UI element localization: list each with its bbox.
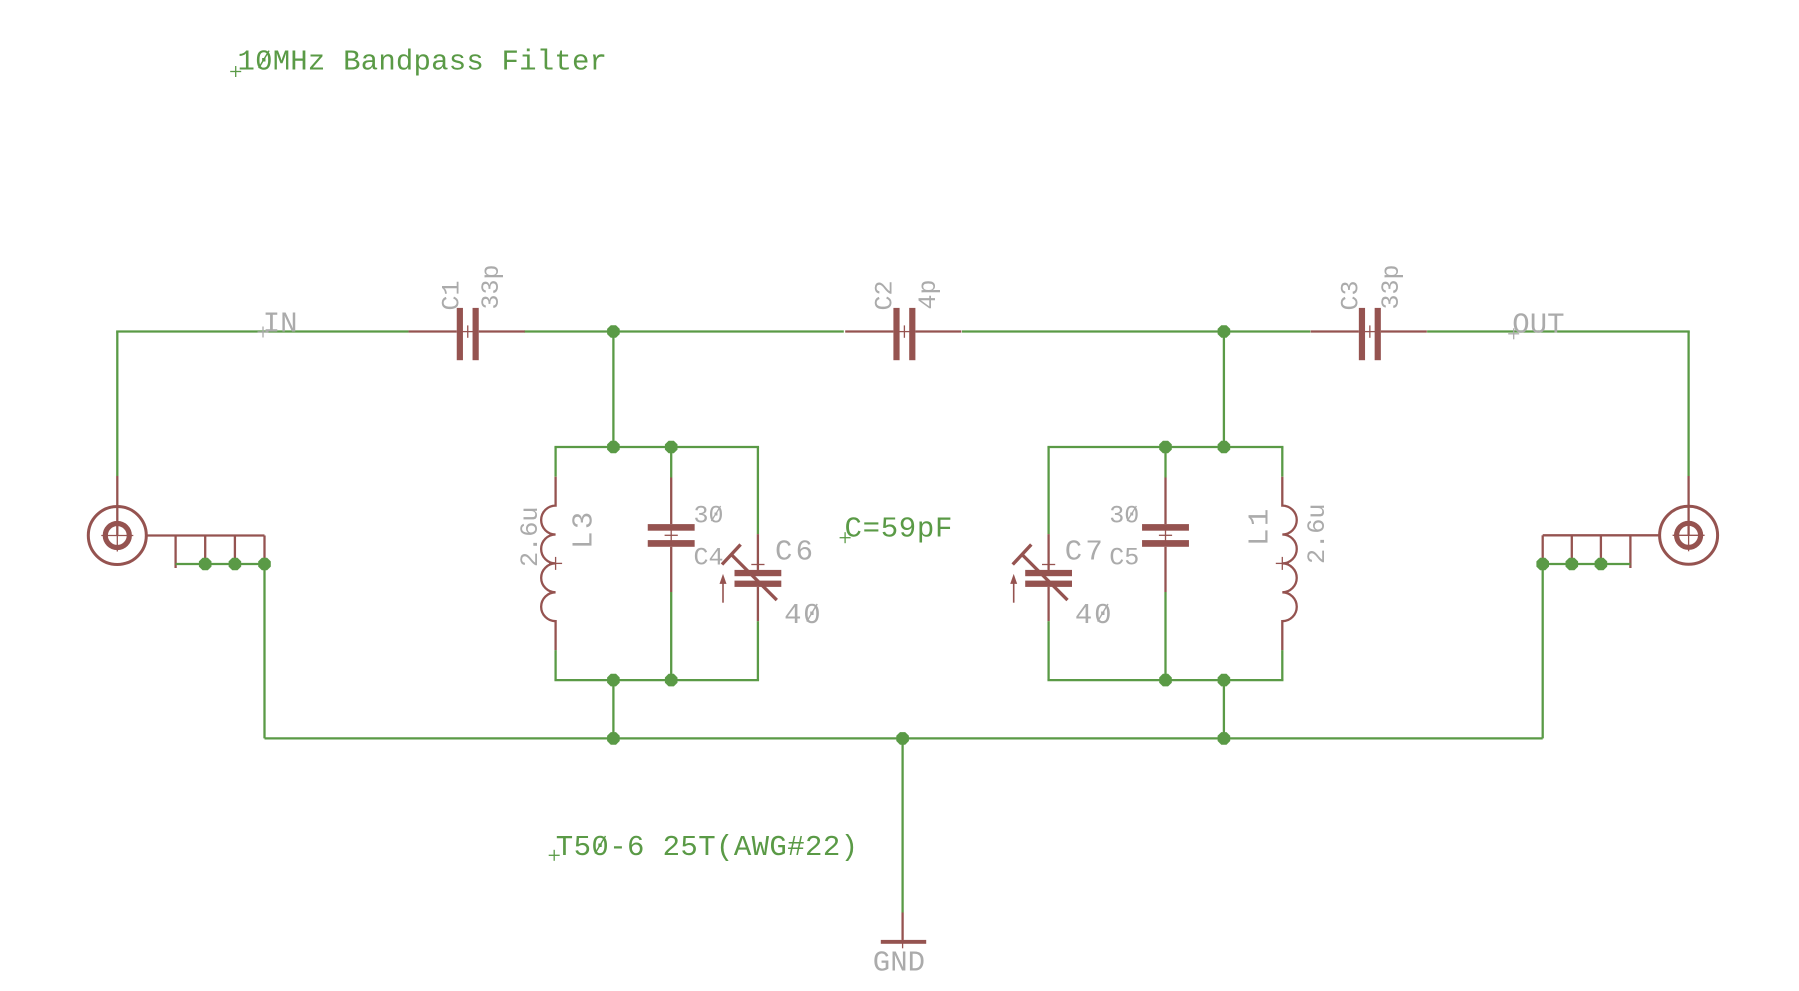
svg-text:IN: IN [263, 307, 298, 340]
inductor L1 top green stub [1281, 447, 1283, 477]
trimmer capacitor C7 bottom plate [1025, 581, 1072, 587]
svg-text:L1: L1 [1244, 506, 1277, 546]
wire: drop from main wire to left tank top rail [612, 332, 614, 448]
wire: IN net, left vertical from connector to top rail [116, 332, 118, 477]
slashed zero in C7 value [1098, 604, 1108, 622]
svg-text:T50-6 25T(AWG#22): T50-6 25T(AWG#22) [556, 831, 859, 864]
connector OUT crosshair [1673, 519, 1705, 551]
node OUT label origin cross [1508, 328, 1519, 339]
trimmer capacitor C7 bottom lead [1047, 587, 1049, 621]
wire: IN net, horizontal from left corner to C1 [116, 330, 408, 332]
capacitor C4 bottom lead [670, 547, 672, 592]
trimmer capacitor C7 bottom green stub [1047, 621, 1049, 680]
junction right tank bottom rail at exit [1218, 674, 1231, 687]
wire: net between C2 and C3 (horizontal) [962, 330, 1310, 332]
capacitor C2 origin cross [898, 325, 910, 337]
capacitor C3 left lead [1311, 330, 1359, 332]
trimmer capacitor C7 adjustment shaft (diagonal) [1022, 555, 1068, 601]
svg-text:4p: 4p [914, 279, 943, 309]
junction right shield tick 3 [1595, 558, 1608, 571]
junction left shield tick 4 [258, 558, 271, 571]
ground symbol origin cross [896, 935, 909, 948]
connector IN shield bracket horizontal [146, 534, 264, 536]
note text origin cross [840, 532, 851, 543]
slashed zero in C6 value [807, 604, 817, 622]
wire: ground stem vertical [901, 738, 903, 912]
junction ground bus at left tank [607, 732, 620, 745]
trimmer capacitor C6 up arrow [720, 574, 727, 603]
connector OUT shield bracket horizontal [1543, 534, 1660, 536]
capacitor C4 top green stub [670, 447, 672, 478]
junction left tank bottom rail at C4 [665, 674, 678, 687]
trimmer capacitor C6 bottom plate [735, 581, 782, 587]
junction left tank bottom rail at exit [607, 674, 620, 687]
svg-text:GND: GND [873, 947, 925, 980]
svg-text:2.6u: 2.6u [516, 507, 545, 567]
wire: right tank top rail [1047, 446, 1283, 448]
svg-text:C6: C6 [775, 536, 816, 569]
wire: left shield ground link [176, 563, 265, 565]
junction right tank top rail at C5 [1159, 441, 1172, 454]
capacitor C5 bottom green stub [1164, 592, 1166, 680]
trimmer capacitor C7 top plate [1025, 570, 1072, 576]
junction ground bus at right tank [1218, 732, 1231, 745]
wire: right tank exit drop to ground bus [1223, 680, 1225, 738]
junction on main wire above right tank [1218, 325, 1231, 338]
capacitor C4 top plate [648, 524, 695, 531]
connector OUT shield tick 1 [1542, 535, 1544, 568]
connector OUT center pin lead [1687, 476, 1689, 535]
junction left shield tick 2 [199, 558, 212, 571]
wire: OUT net horizontal from C3 to right corner [1427, 330, 1690, 332]
connector IN shield tick 1 [174, 536, 176, 569]
capacitor C3 right plate [1375, 308, 1381, 360]
capacitor C2 left lead [845, 330, 893, 332]
capacitor C5 bottom plate [1142, 540, 1189, 547]
wire: left tank top rail [554, 446, 759, 448]
inductor L1 origin cross [1276, 557, 1289, 570]
junction on main wire above left tank [607, 325, 620, 338]
trimmer capacitor C6 bottom lead [757, 587, 759, 621]
capacitor C1 right lead [479, 330, 525, 332]
inductor L1 body (pins and winding arcs) [1282, 477, 1296, 650]
capacitor C5 bottom lead [1164, 547, 1166, 592]
slashed zero in C4 value [711, 506, 720, 521]
schematic title text origin cross [230, 66, 241, 77]
trimmer capacitor C6 top plate [735, 570, 782, 576]
node IN label origin cross [258, 327, 269, 338]
svg-text:10MHz Bandpass Filter: 10MHz Bandpass Filter [238, 46, 608, 79]
inductor L3 origin cross [549, 557, 562, 570]
junction left shield tick 3 [229, 558, 242, 571]
wire: OUT net, right vertical down to connector [1687, 332, 1689, 477]
wire: right shield drop to ground bus [1542, 564, 1544, 738]
wire: right shield ground link [1543, 563, 1631, 565]
connector IN shield tick 2 [204, 536, 206, 569]
trimmer capacitor C7 top lead [1047, 534, 1049, 570]
svg-text:C5: C5 [1109, 543, 1139, 572]
coil note text origin cross [549, 850, 560, 861]
inductor L3 top green stub [554, 447, 556, 477]
junction ground bus at ground stem [896, 732, 909, 745]
connector IN (coax jack) outer circle [88, 507, 146, 565]
junction left tank top rail at C4 [665, 441, 678, 454]
wire: left shield drop to ground bus [263, 564, 265, 738]
trimmer capacitor C6 bottom green stub [757, 621, 759, 680]
junction right shield tick 1 [1536, 558, 1549, 571]
capacitor C5 top lead [1164, 478, 1166, 525]
connector IN shield tick 3 [234, 536, 236, 569]
capacitor C4 top lead [670, 478, 672, 525]
capacitor C2 right plate [909, 308, 915, 360]
wire: right tank bottom rail [1047, 679, 1283, 681]
capacitor C3 right lead [1381, 330, 1427, 332]
svg-text:30: 30 [1109, 502, 1139, 531]
trimmer capacitor C7 top green stub [1047, 447, 1049, 534]
wire: net between C1 and C2 (horizontal) [524, 330, 844, 332]
capacitor C5 top plate [1142, 524, 1189, 531]
trimmer capacitor C6 adjustment shaft (diagonal) [731, 555, 777, 601]
connector IN inner ring [105, 524, 129, 548]
connector OUT inner ring [1677, 523, 1701, 547]
svg-text:33p: 33p [477, 264, 506, 309]
junction right shield tick 2 [1566, 558, 1579, 571]
connector OUT shield tick 2 [1571, 535, 1573, 568]
wire: left tank bottom rail [554, 679, 759, 681]
svg-text:30: 30 [694, 502, 724, 531]
capacitor C2 left plate [893, 308, 899, 360]
svg-text:33p: 33p [1377, 264, 1406, 309]
capacitor C4 bottom plate [648, 540, 695, 547]
svg-text:C=59pF: C=59pF [845, 513, 954, 546]
svg-text:OUT: OUT [1512, 308, 1564, 341]
inductor L3 bottom green stub [554, 650, 556, 680]
capacitor C5 top green stub [1164, 447, 1166, 478]
svg-text:C4: C4 [694, 543, 724, 572]
ground symbol pin lead [901, 913, 903, 940]
capacitor C4 bottom green stub [670, 592, 672, 680]
ground symbol bar [881, 940, 926, 944]
connector IN shield tick 4 [263, 536, 265, 569]
capacitor C1 left lead [409, 330, 457, 332]
trimmer capacitor C7 up arrow [1010, 574, 1017, 603]
connector OUT shield tick 4 [1629, 535, 1631, 568]
trimmer capacitor C7 origin cross [1042, 558, 1055, 571]
wire: left tank exit drop to ground bus [612, 680, 614, 738]
capacitor C3 left plate [1359, 308, 1365, 360]
connector OUT (coax jack) outer circle [1660, 506, 1718, 564]
trimmer capacitor C6 top green stub [757, 447, 759, 534]
connector OUT shield tick 3 [1600, 535, 1602, 568]
slashed zero in coil note [595, 836, 605, 854]
capacitor C1 left plate [457, 308, 463, 360]
trimmer capacitor C7 screw head T-bar [1013, 545, 1032, 565]
capacitor C2 right lead [915, 330, 961, 332]
capacitor C5 origin cross [1159, 529, 1172, 542]
capacitor C3 origin cross [1364, 325, 1376, 337]
trimmer capacitor C6 screw head T-bar [722, 545, 741, 565]
wire: ground bus horizontal [265, 737, 1543, 739]
junction right tank bottom rail at C5 [1159, 674, 1172, 687]
trimmer capacitor C6 origin cross [751, 558, 764, 571]
svg-text:C1: C1 [438, 280, 467, 310]
slashed zero in C5 value [1127, 506, 1136, 521]
wire: drop from main wire to right tank top rail [1223, 332, 1225, 448]
capacitor C1 origin cross [462, 325, 474, 337]
junction left tank top rail at entry [607, 441, 620, 454]
svg-text:2.6u: 2.6u [1303, 504, 1332, 564]
inductor L1 bottom green stub [1281, 650, 1283, 680]
svg-text:C3: C3 [1337, 280, 1366, 310]
capacitor C1 right plate [473, 308, 479, 360]
capacitor C4 origin cross [665, 529, 678, 542]
connector IN crosshair [101, 520, 133, 552]
junction right tank top rail at entry [1218, 441, 1231, 454]
trimmer capacitor C6 top lead [757, 534, 759, 570]
slashed zero in title [259, 51, 269, 69]
connector IN center pin lead [116, 476, 118, 536]
svg-text:L3: L3 [568, 509, 601, 549]
svg-text:C7: C7 [1065, 536, 1106, 569]
svg-text:C2: C2 [871, 280, 900, 310]
inductor L3 body (pins and winding arcs) [541, 477, 555, 650]
